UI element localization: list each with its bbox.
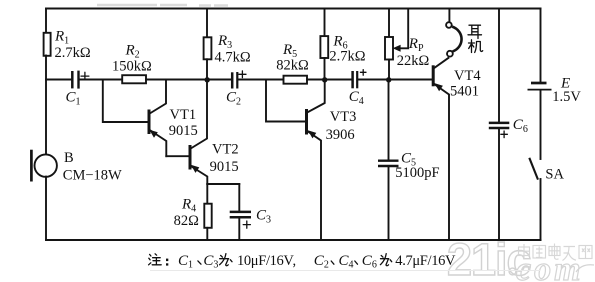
svg-text:5100pF: 5100pF bbox=[395, 165, 439, 181]
svg-text:22kΩ: 22kΩ bbox=[397, 53, 430, 69]
microphone B CM-18W bbox=[31, 150, 122, 184]
transistor VT3 bbox=[307, 82, 357, 240]
svg-text:2.7kΩ: 2.7kΩ bbox=[55, 45, 91, 61]
capacitor C5 bbox=[378, 80, 440, 241]
svg-text:C2: C2 bbox=[314, 253, 329, 271]
为 glyph bbox=[220, 254, 232, 266]
label 耳机 bbox=[468, 25, 483, 52]
svg-text:B: B bbox=[64, 150, 74, 166]
svg-text:RP: RP bbox=[408, 36, 424, 54]
resistor R4 bbox=[174, 184, 212, 240]
注 glyph bbox=[149, 254, 162, 265]
note line bbox=[149, 253, 456, 271]
svg-text:C4: C4 bbox=[339, 253, 354, 271]
svg-text:C6: C6 bbox=[362, 253, 377, 271]
svg-text:2.7kΩ: 2.7kΩ bbox=[329, 49, 365, 65]
svg-text:82kΩ: 82kΩ bbox=[276, 58, 309, 74]
wire VT2 emitter node bbox=[207, 183, 239, 185]
svg-text:C2: C2 bbox=[226, 90, 241, 108]
svg-text:VT2: VT2 bbox=[212, 142, 239, 158]
node R6 / VT3 collector junction bbox=[322, 77, 327, 82]
resistor R3 bbox=[204, 9, 251, 80]
svg-text:10μF/16V: 10μF/16V bbox=[237, 253, 294, 269]
svg-text:C3: C3 bbox=[203, 253, 218, 271]
svg-text:VT3: VT3 bbox=[330, 109, 357, 125]
capacitor C2 bbox=[226, 71, 246, 108]
wire left rail upper bbox=[45, 9, 47, 33]
scan smudge artifacts bbox=[97, 4, 228, 7]
svg-text:C4: C4 bbox=[349, 89, 364, 107]
faint rule bbox=[150, 270, 540, 272]
resistor R1 bbox=[44, 33, 51, 56]
svg-text:C3: C3 bbox=[256, 208, 271, 226]
svg-text:VT1: VT1 bbox=[170, 107, 197, 123]
svg-text:4.7kΩ: 4.7kΩ bbox=[215, 50, 251, 66]
wire VT1 base drop bbox=[103, 80, 148, 123]
wire C4 to VT4 base bbox=[358, 79, 432, 81]
transistor VT1 bbox=[149, 80, 198, 157]
wire VT1 emitter to VT2 base bbox=[166, 155, 188, 157]
wire VT3 base drop bbox=[266, 80, 305, 122]
svg-text:C1: C1 bbox=[66, 90, 81, 108]
为 glyph bbox=[380, 254, 391, 266]
svg-text:9015: 9015 bbox=[169, 123, 198, 139]
wire C1 to R2 (VT1 base node) bbox=[79, 79, 122, 81]
svg-text:CM−18W: CM−18W bbox=[63, 167, 122, 183]
svg-text:,: , bbox=[293, 253, 297, 269]
svg-text:VT4: VT4 bbox=[454, 68, 481, 84]
battery E bbox=[528, 9, 582, 160]
capacitor C1 bbox=[66, 71, 89, 108]
wire left rail mid bbox=[45, 56, 47, 155]
svg-text:SA: SA bbox=[545, 166, 564, 182]
resistor R5 bbox=[284, 76, 308, 84]
wire top rail bbox=[46, 8, 541, 10]
svg-text:R3: R3 bbox=[217, 33, 232, 51]
svg-text:C1: C1 bbox=[178, 253, 193, 271]
svg-text:9015: 9015 bbox=[210, 159, 239, 175]
svg-text:R1: R1 bbox=[54, 29, 69, 47]
node VT1 collector junction bbox=[205, 77, 210, 82]
capacitor C3 bbox=[230, 184, 271, 240]
svg-text:3906: 3906 bbox=[326, 127, 355, 143]
wire bottom rail bbox=[46, 239, 541, 241]
switch SA bbox=[529, 158, 564, 240]
ideographic comma bbox=[198, 261, 201, 264]
svg-text:150kΩ: 150kΩ bbox=[112, 59, 152, 75]
wire left rail lower bbox=[45, 177, 47, 240]
transistor VT4 bbox=[433, 58, 481, 240]
svg-text:5401: 5401 bbox=[450, 83, 479, 99]
wire C2 to R5 bbox=[238, 79, 284, 81]
wire input node to C1 bbox=[46, 79, 72, 81]
earphone jack bbox=[446, 9, 461, 57]
svg-text:R4: R4 bbox=[181, 197, 196, 215]
resistor R6 bbox=[320, 9, 365, 80]
wire R2 to C2 (collector node) bbox=[146, 79, 232, 81]
svg-text:1.5V: 1.5V bbox=[552, 89, 581, 105]
node RP / C5 junction bbox=[386, 77, 391, 82]
capacitor C4 bbox=[349, 70, 366, 107]
watermark 中国电子网 bbox=[519, 244, 593, 261]
svg-text:C6: C6 bbox=[513, 117, 528, 135]
svg-text:82Ω: 82Ω bbox=[174, 213, 200, 229]
resistor R2 bbox=[122, 75, 146, 83]
capacitor C6 bbox=[489, 9, 528, 241]
potentiometer RP bbox=[385, 9, 429, 80]
transistor VT2 bbox=[190, 82, 239, 184]
watermark 21ic.com bbox=[447, 234, 594, 282]
wire R5 to C4 bbox=[307, 79, 352, 81]
